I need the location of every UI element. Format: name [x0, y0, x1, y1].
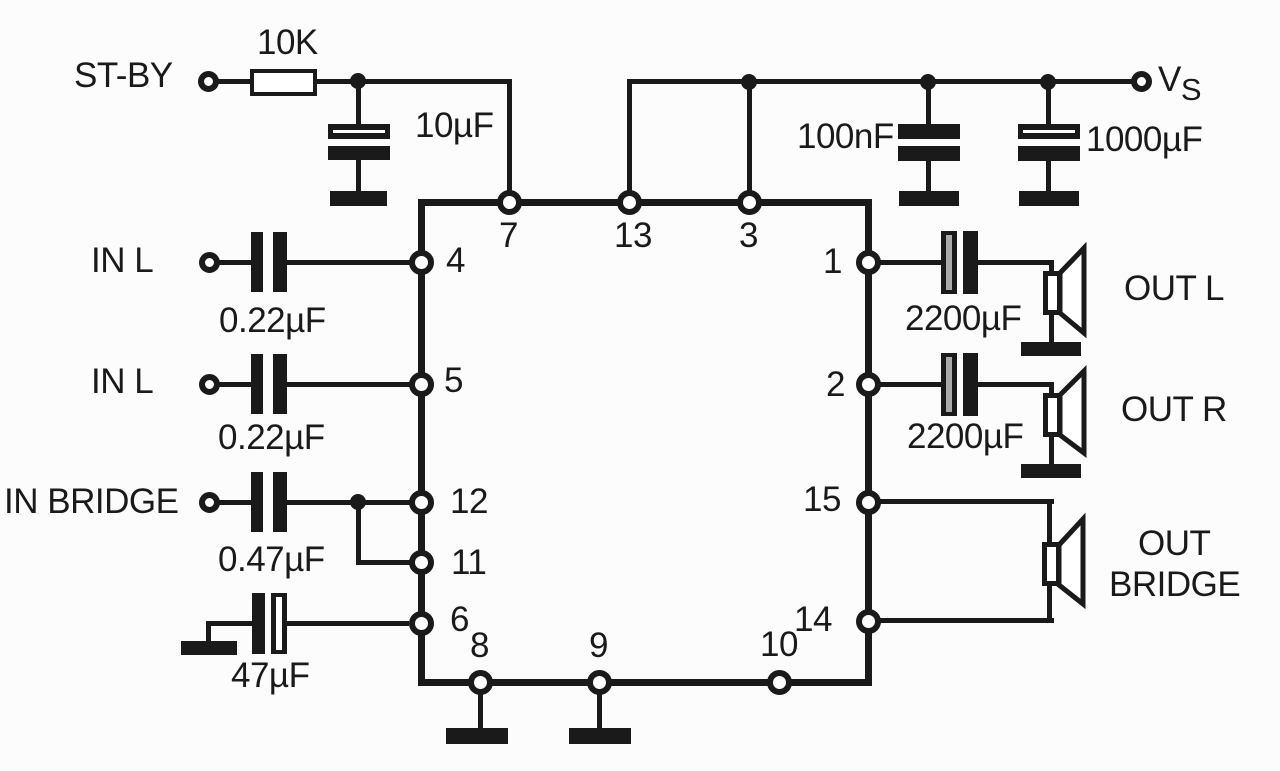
wire jog to pin 11	[356, 560, 412, 565]
pin 4 label	[446, 243, 465, 278]
capacitor C1 10uF minus plate	[328, 146, 390, 160]
capacitor C8 2200uF minus plate	[963, 231, 978, 294]
pin 2	[856, 372, 881, 397]
pin 5 label	[444, 363, 463, 398]
ground below C3	[1019, 191, 1079, 206]
capacitor C6 0.47uF plate 2	[273, 472, 287, 532]
pin 8	[468, 670, 493, 695]
pin 10	[767, 670, 792, 695]
ground below speaker L	[1021, 342, 1081, 356]
label OUT BRIDGE line 2	[1109, 567, 1240, 602]
junction dot E (bridge input node)	[350, 494, 366, 510]
wire C1 to ground	[356, 160, 361, 193]
junction dot B (pin 3 node)	[741, 74, 757, 90]
label IN BRIDGE	[4, 484, 178, 519]
capacitor C1 10uF plus plate	[328, 124, 390, 139]
terminal IN BRIDGE	[199, 492, 220, 513]
capacitor C8 2200uF plus plate	[941, 231, 957, 294]
wire pin 14 to bridge speaker	[878, 618, 1054, 623]
speaker R horn	[1052, 360, 1094, 464]
pin 1 label	[823, 244, 842, 279]
capacitor C5 0.22uF plate 1	[251, 354, 263, 414]
pin 7	[497, 190, 522, 215]
pin 4	[409, 250, 434, 275]
pin 12 label	[450, 484, 488, 519]
pin 15 label	[803, 482, 841, 517]
resistor 10K	[250, 69, 317, 96]
capacitor C7 47uF plus plate	[271, 593, 287, 654]
wire pin 8 to ground	[478, 694, 483, 729]
wire terminal to C5	[216, 382, 253, 387]
speaker L stub bottom	[1049, 313, 1054, 343]
speaker R driver box	[1043, 393, 1062, 437]
wire C6 to pin 12	[287, 500, 418, 505]
wire pin 9 to ground	[597, 694, 602, 729]
wire pin 15 to bridge speaker	[878, 499, 1054, 504]
wire C5 to pin 5	[287, 382, 418, 387]
wire C8 to speaker L	[978, 260, 1054, 265]
wire junction to capacitor C1	[356, 81, 361, 126]
wire pin 2 to C9	[878, 382, 942, 387]
ground below C2	[899, 191, 959, 206]
capacitor C4 0.22uF plate 2	[273, 232, 287, 292]
pin 14 label	[794, 602, 832, 637]
ground below pin 8	[446, 728, 508, 744]
pin 7 label	[499, 218, 518, 253]
pin 9 label	[589, 628, 608, 663]
label OUT R	[1121, 392, 1227, 427]
label OUT L	[1124, 271, 1224, 306]
wire jog down from junction	[356, 502, 361, 564]
speaker L stub top	[1049, 262, 1054, 274]
capacitor C5 0.22uF plate 2	[273, 354, 287, 414]
wire bridge speaker top drop	[1047, 499, 1052, 544]
pin 10 label	[760, 627, 798, 662]
pin 11	[409, 550, 434, 575]
wire ground riser	[206, 623, 211, 643]
label IN L (row 1)	[91, 243, 153, 278]
label VS	[1158, 62, 1202, 107]
capacitor C6 0.47uF plate 1	[251, 472, 263, 532]
junction dot A (st-by node)	[350, 73, 366, 89]
speaker R stub bottom	[1049, 435, 1054, 465]
capacitor C3 1000uF plus plate	[1018, 124, 1080, 139]
pin 11 label	[451, 545, 486, 580]
terminal IN L 2	[199, 374, 220, 395]
wire terminal to C4	[216, 260, 253, 265]
pin 14	[856, 609, 881, 634]
capacitor C9 2200uF minus plate	[963, 353, 978, 416]
junction dot D (1000uF node)	[1040, 74, 1056, 90]
ground left of C7	[181, 641, 237, 655]
wire C7 to pin 6	[287, 621, 409, 626]
wire junction to capacitor C2 100nF	[926, 81, 931, 126]
pin 1	[856, 250, 881, 275]
pin 8 label	[470, 628, 489, 663]
IC body U1	[418, 199, 872, 686]
pin 9	[587, 670, 612, 695]
wire resistor to pin 7 drop	[317, 79, 511, 84]
capacitor C7 47uF minus plate	[252, 593, 265, 654]
wire terminal to C6	[216, 500, 253, 505]
wire riser from pin 13 and top supply rail to VS	[627, 79, 1133, 84]
wire drop to pin 7	[507, 79, 512, 201]
capacitor C4 0.22uF plate 1	[251, 232, 263, 292]
speaker R stub top	[1049, 384, 1054, 396]
label 2200uF (row 2)	[907, 419, 1023, 454]
ground below pin 9	[569, 728, 631, 744]
speaker L horn	[1052, 238, 1094, 342]
ground below C1	[330, 191, 387, 206]
wire C3 to ground	[1046, 161, 1051, 193]
bridge speaker horn	[1051, 509, 1093, 613]
wire C4 to pin 4	[287, 260, 418, 265]
label IN L (row 2)	[91, 364, 153, 399]
label ST-BY	[74, 58, 173, 93]
label OUT BRIDGE line 1	[1138, 526, 1210, 561]
capacitor C2 100nF plate 2	[898, 146, 960, 161]
wire ST-BY terminal to resistor	[216, 79, 252, 84]
pin 15	[856, 490, 881, 515]
wire pin 13 riser	[627, 79, 632, 201]
wire junction to capacitor C3 1000uF	[1046, 81, 1051, 126]
pin 5	[409, 372, 434, 397]
bridge speaker driver box	[1042, 542, 1061, 586]
capacitor C2 100nF plate 1	[898, 124, 960, 139]
wire pin 3 riser	[747, 81, 752, 200]
wire bridge speaker bottom riser	[1047, 584, 1052, 620]
terminal VS	[1131, 71, 1152, 92]
pin 6	[409, 611, 434, 636]
pin 2 label	[826, 367, 845, 402]
label 2200uF (row 1)	[905, 301, 1021, 336]
pin 12	[409, 490, 434, 515]
label 100nF	[797, 119, 894, 154]
junction dot C (100nF node)	[920, 74, 936, 90]
wire C9 to speaker R	[978, 382, 1054, 387]
wire ground to C7	[206, 621, 253, 626]
label 47uF	[231, 658, 309, 693]
wire pin 1 to C8	[878, 260, 942, 265]
wire C2 to ground	[926, 161, 931, 193]
pin 13	[617, 190, 642, 215]
label 0.47uF	[218, 542, 325, 577]
pin 13 label	[614, 218, 652, 253]
terminal ST-BY	[198, 71, 219, 92]
label 10uF	[415, 108, 493, 143]
label 0.22uF (row 2)	[218, 420, 325, 455]
pin 3 label	[739, 218, 758, 253]
pin 3	[737, 190, 762, 215]
label 1000uF	[1086, 122, 1202, 157]
capacitor C3 1000uF minus plate	[1018, 146, 1080, 161]
speaker L driver box	[1043, 271, 1062, 315]
label 10K	[257, 25, 318, 60]
label 0.22uF (row 1)	[219, 303, 326, 338]
terminal IN L 1	[199, 252, 220, 273]
ground below speaker R	[1021, 464, 1081, 478]
capacitor C9 2200uF plus plate	[941, 353, 957, 416]
pin 6 label	[450, 602, 469, 637]
